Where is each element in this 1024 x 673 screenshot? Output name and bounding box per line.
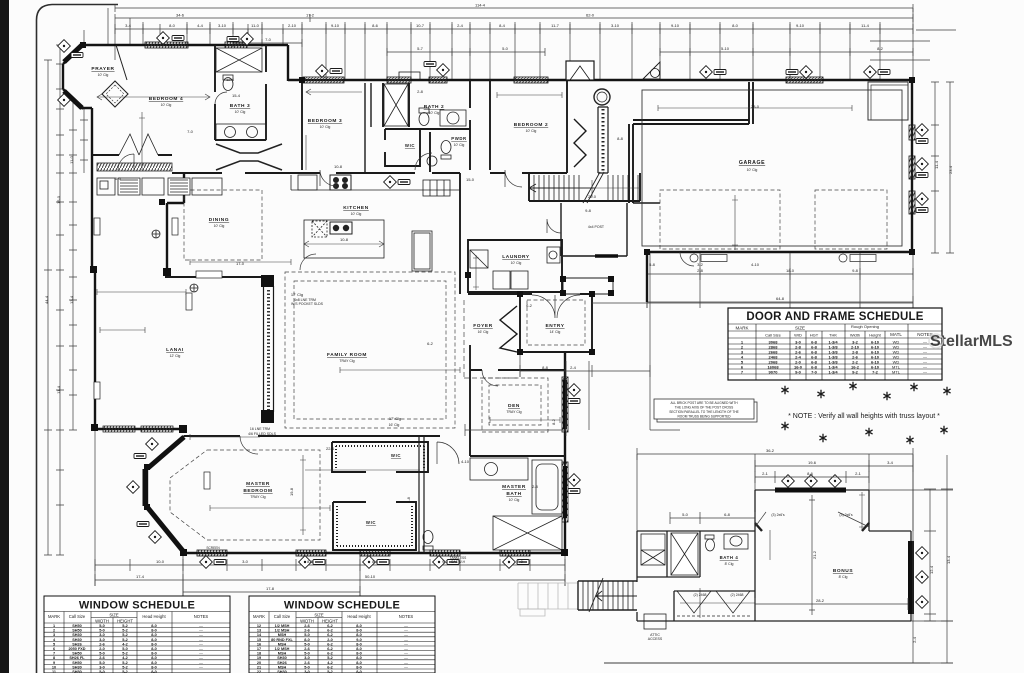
svg-text:8-0: 8-0	[151, 633, 157, 637]
svg-text:MARK: MARK	[253, 614, 265, 619]
svg-text:22-4: 22-4	[326, 446, 335, 451]
door arc: porch	[547, 219, 561, 233]
svg-text:8-8: 8-8	[307, 559, 314, 564]
svg-text:2-6: 2-6	[99, 656, 105, 660]
wall: master bay west window	[146, 468, 148, 507]
svg-text:SH30: SH30	[277, 656, 287, 660]
svg-text:10' Clg: 10' Clg	[98, 73, 109, 77]
svg-text:8-6: 8-6	[807, 471, 814, 476]
chimney flue dots	[602, 109, 605, 171]
svg-text:18: 18	[257, 652, 261, 656]
wall: bedroom3 west	[301, 80, 303, 170]
tray: family room nested	[285, 272, 455, 428]
bonus: sink bath4	[724, 534, 748, 549]
svg-text:2-4: 2-4	[457, 23, 464, 28]
svg-text:5-2: 5-2	[327, 656, 333, 660]
svg-text:9-8: 9-8	[585, 208, 592, 213]
svg-text:5-0: 5-0	[115, 176, 122, 181]
dim line: left vertical columns	[44, 60, 52, 555]
door arc: entry double doors	[532, 295, 580, 318]
svg-text:9-8: 9-8	[852, 268, 859, 273]
fixture: kitchen island	[304, 220, 384, 258]
symbols: east wall	[568, 384, 581, 397]
svg-text:MASTER: MASTER	[502, 484, 526, 490]
svg-text:2-0: 2-0	[327, 638, 333, 642]
door arc: family opening	[300, 254, 316, 270]
dim line: overall top 114-4	[115, 4, 913, 12]
svg-text:2-6: 2-6	[304, 624, 310, 628]
dim line: under garage	[647, 268, 913, 280]
svg-text:ACCESS: ACCESS	[648, 637, 663, 641]
svg-text:SH50: SH50	[72, 624, 82, 628]
svg-text:4-2: 4-2	[327, 661, 333, 665]
wall: stairs enclosure	[529, 173, 640, 201]
window: bay master W	[143, 469, 148, 506]
svg-text:8: 8	[53, 656, 55, 660]
svg-text:8-0: 8-0	[356, 652, 362, 656]
svg-text:5-2: 5-2	[122, 629, 128, 633]
svg-text:5-10: 5-10	[721, 46, 730, 51]
svg-text:9070: 9070	[769, 370, 779, 375]
svg-text:10' Clg: 10' Clg	[454, 143, 465, 147]
tray: dining	[184, 190, 262, 260]
bonus: south wall	[637, 620, 911, 622]
svg-text:9-2: 9-2	[852, 370, 859, 375]
svg-text:6-2: 6-2	[327, 633, 333, 637]
bonus: right wall diamonds	[916, 547, 929, 560]
svg-text:8-4: 8-4	[499, 23, 506, 28]
svg-text:—: —	[404, 638, 408, 642]
svg-text:16: 16	[257, 642, 261, 646]
window pill markers on west walls	[94, 218, 100, 235]
svg-text:MATL: MATL	[890, 332, 902, 337]
tray: master bedroom	[170, 450, 320, 540]
bonus: closet walls	[674, 591, 755, 621]
dim line: right garage verticals	[931, 82, 939, 253]
fixture: foyer niche shelves	[423, 180, 450, 196]
svg-text:4-10: 4-10	[751, 262, 760, 267]
svg-text:5-0: 5-0	[99, 624, 105, 628]
svg-text:8-0: 8-0	[732, 23, 739, 28]
svg-text:12: 12	[257, 624, 261, 628]
svg-text:WID: WID	[794, 333, 802, 338]
fixture: master vanity	[470, 458, 528, 480]
svg-text:DINING: DINING	[209, 217, 229, 223]
svg-text:5-2: 5-2	[122, 665, 128, 669]
svg-text:SH26 FL: SH26 FL	[69, 656, 85, 660]
window: garage top	[786, 77, 823, 83]
interior small dims	[115, 77, 853, 597]
wall: foyer west	[459, 250, 461, 294]
fixture: kitchen range burners	[330, 175, 351, 190]
svg-text:FAMILY ROOM: FAMILY ROOM	[327, 352, 367, 358]
svg-text:—: —	[199, 647, 203, 651]
door arc: garage service	[680, 252, 694, 266]
svg-text:BEDROOM 2: BEDROOM 2	[514, 122, 548, 128]
chimney fan	[594, 89, 610, 105]
wall: hall south of bedroom3	[302, 172, 460, 174]
svg-text:* NOTE : Verify all wall heigh: * NOTE : Verify all wall heights with tr…	[788, 413, 940, 420]
svg-text:WINDOW SCHEDULE: WINDOW SCHEDULE	[79, 600, 195, 612]
svg-text:SIZE: SIZE	[314, 613, 324, 618]
svg-text:Head Height: Head Height	[142, 614, 166, 619]
svg-text:8' Clg: 8' Clg	[839, 575, 848, 579]
svg-text:11-4: 11-4	[934, 160, 939, 168]
svg-text:3-0: 3-0	[99, 638, 105, 642]
bonus: toilet bath4	[706, 539, 715, 551]
svg-text:17-0: 17-0	[236, 261, 245, 266]
svg-text:7: 7	[53, 652, 55, 656]
bonus: bath4 walls	[637, 531, 700, 577]
prayer corner closet diamond	[102, 81, 128, 107]
svg-text:ENTRY: ENTRY	[545, 323, 564, 329]
svg-text:8-0: 8-0	[356, 661, 362, 665]
svg-text:9-2: 9-2	[442, 559, 449, 564]
svg-text:—: —	[199, 638, 203, 642]
ground line	[604, 662, 930, 664]
svg-text:8-0: 8-0	[356, 629, 362, 633]
svg-text:13: 13	[257, 629, 261, 633]
wall: master bay NW diagonal window	[147, 436, 184, 468]
svg-text:ROOM TRUSS BEING SUPPORTED: ROOM TRUSS BEING SUPPORTED	[677, 415, 731, 419]
bonus: closet dashed shelf	[677, 615, 752, 617]
svg-text:114-4: 114-4	[475, 3, 486, 8]
svg-text:9-0: 9-0	[795, 370, 802, 375]
svg-text:Head Height: Head Height	[347, 614, 371, 619]
svg-text:10' Clg: 10' Clg	[161, 103, 172, 107]
svg-text:ALL BRICK POST ARE TO BE ALIGN: ALL BRICK POST ARE TO BE ALIGNED WITH	[670, 401, 738, 405]
svg-text:10' Clg: 10' Clg	[351, 212, 362, 216]
svg-text:3-0: 3-0	[99, 633, 105, 637]
svg-text:WIC: WIC	[391, 453, 401, 458]
window: garage east 2	[909, 156, 915, 179]
svg-text:20: 20	[257, 661, 261, 665]
bonus: stairs light continuation	[518, 583, 578, 616]
window: top wall pwdr	[429, 77, 447, 83]
svg-text:6-2: 6-2	[327, 652, 333, 656]
posts: wall junction blocks	[90, 266, 97, 273]
door arc: bedroom4	[118, 154, 134, 170]
svg-text:—: —	[404, 665, 408, 669]
door arc: bedroom3	[320, 170, 336, 186]
svg-text:7-2: 7-2	[872, 370, 879, 375]
svg-text:2-4: 2-4	[570, 365, 577, 370]
svg-text:DOOR AND FRAME SCHEDULE: DOOR AND FRAME SCHEDULE	[746, 311, 923, 323]
window: south wall segments	[197, 550, 227, 556]
svg-text:Rough Opening: Rough Opening	[851, 324, 879, 329]
svg-text:—: —	[199, 642, 203, 646]
window: top wall bedroom4	[145, 42, 188, 48]
svg-text:3-0: 3-0	[304, 656, 310, 660]
svg-text:8-0: 8-0	[151, 638, 157, 642]
fixture: laundry sink	[470, 250, 488, 268]
dim line: top third row segments	[115, 28, 913, 30]
bonus: attic access	[644, 614, 666, 629]
svg-text:4/6 FILLED SDLS: 4/6 FILLED SDLS	[248, 432, 276, 436]
svg-text:11-4: 11-4	[861, 23, 869, 28]
svg-text:5: 5	[53, 642, 55, 646]
svg-text:(3) 2x6's: (3) 2x6's	[771, 513, 785, 517]
svg-text:8-0: 8-0	[356, 665, 362, 669]
svg-text:THK: THK	[829, 333, 837, 338]
french doors bedroom4	[119, 134, 158, 155]
svg-text:—: —	[404, 661, 408, 665]
svg-text:13-4: 13-4	[69, 295, 74, 304]
svg-text:2-8: 2-8	[532, 484, 539, 489]
svg-text:WIC: WIC	[366, 520, 376, 525]
svg-text:36-2: 36-2	[766, 448, 775, 453]
svg-text:—: —	[199, 629, 203, 633]
wall: garage west double	[629, 82, 753, 203]
door arc: den	[482, 370, 498, 386]
svg-text:—: —	[199, 633, 203, 637]
bonus: corner braces	[755, 523, 869, 531]
svg-text:1-3/4: 1-3/4	[828, 370, 838, 375]
bonus: AC closet	[641, 534, 665, 565]
svg-text:5-8: 5-8	[406, 496, 411, 503]
svg-text:6: 6	[53, 647, 55, 651]
svg-text:9-10: 9-10	[796, 23, 805, 28]
svg-text:6-8: 6-8	[724, 512, 731, 517]
fixture: laundry washer dryer	[493, 271, 510, 289]
svg-text:8-0: 8-0	[517, 559, 524, 564]
svg-text:MSH: MSH	[278, 633, 287, 637]
svg-text:15-0: 15-0	[56, 195, 61, 204]
svg-text:WINDOW SCHEDULE: WINDOW SCHEDULE	[284, 600, 400, 612]
svg-text:3-4: 3-4	[125, 23, 132, 28]
svg-text:2-6: 2-6	[304, 647, 310, 651]
svg-text:15-4: 15-4	[232, 93, 241, 98]
svg-text:8-0: 8-0	[304, 638, 310, 642]
chimney: flue column	[598, 107, 608, 173]
svg-text:—: —	[199, 652, 203, 656]
window: prayer bay SW	[64, 91, 82, 108]
svg-text:21-2: 21-2	[812, 550, 817, 559]
svg-text:16' Clg: 16' Clg	[478, 330, 489, 334]
wall: top exterior section B (bedrooms/garage)	[288, 79, 912, 81]
wall: step between top sections	[287, 45, 289, 81]
buffet dotted strip	[97, 163, 172, 171]
wall: lanai north step	[165, 276, 262, 278]
svg-text:8-0: 8-0	[151, 652, 157, 656]
window: top wall bedroom4 east	[225, 42, 247, 48]
fixture: bath2 toilet	[419, 113, 429, 126]
sheet frame border	[37, 5, 119, 673]
fixture: pantry cabinet	[412, 231, 432, 271]
svg-text:HEIGHT: HEIGHT	[322, 619, 338, 624]
dim line: bottom south wall rows	[95, 559, 565, 571]
svg-text:19: 19	[257, 656, 261, 660]
svg-text:12-4: 12-4	[929, 565, 934, 574]
wall: master/bath divider	[419, 436, 424, 553]
svg-text:BATH: BATH	[506, 491, 521, 497]
svg-text:8-0: 8-0	[151, 629, 157, 633]
symbols: top wall window markers	[157, 32, 170, 45]
tray: garage bays	[660, 190, 780, 249]
svg-text:11-4: 11-4	[56, 385, 61, 393]
hall bowtie chamfer walls	[216, 144, 282, 153]
svg-text:8-0: 8-0	[151, 665, 157, 669]
svg-text:8-0: 8-0	[151, 656, 157, 660]
svg-text:3-0: 3-0	[242, 559, 249, 564]
buffet cabinets	[97, 178, 115, 195]
svg-text:5-0: 5-0	[304, 652, 310, 656]
svg-text:21: 21	[257, 665, 261, 669]
svg-text:10-0: 10-0	[156, 559, 165, 564]
svg-text:Width: Width	[850, 333, 860, 338]
svg-text:10' Clg: 10' Clg	[747, 168, 758, 172]
door arc: bath3	[215, 92, 227, 104]
svg-text:28-0: 28-0	[751, 104, 760, 109]
svg-text:10' Clg: 10' Clg	[320, 125, 331, 129]
wall: bedroom4 south west seg	[92, 154, 172, 156]
wall: master bath north	[470, 436, 565, 456]
svg-text:10-8: 10-8	[340, 237, 349, 242]
svg-text:MSH: MSH	[278, 642, 287, 646]
svg-text:(2) 2468: (2) 2468	[730, 593, 743, 597]
svg-text:6-2: 6-2	[427, 341, 434, 346]
svg-text:KITCHEN: KITCHEN	[343, 205, 369, 211]
svg-text:11-0: 11-0	[69, 155, 74, 163]
fixture: master tub	[532, 460, 562, 514]
svg-text:SH30: SH30	[72, 633, 82, 637]
svg-text:SIZE: SIZE	[109, 613, 119, 618]
svg-text:10' Clg: 10' Clg	[214, 224, 225, 228]
svg-text:LAUNDRY: LAUNDRY	[502, 254, 530, 260]
svg-text:—: —	[404, 642, 408, 646]
vent triangle	[643, 62, 660, 79]
window: bay master NW	[148, 437, 184, 468]
svg-text:TRAY Clg: TRAY Clg	[506, 410, 521, 414]
svg-text:2-6: 2-6	[304, 629, 310, 633]
fixture: bath3 shower	[216, 48, 262, 72]
wall: den west	[469, 345, 471, 436]
svg-text:17: 17	[257, 647, 261, 651]
wall: lanai west	[94, 270, 96, 430]
svg-text:11-0: 11-0	[251, 23, 259, 28]
wall: hall south	[172, 172, 302, 174]
svg-text:THE LONG AXIS OF THE POST CROS: THE LONG AXIS OF THE POST CROSS	[675, 406, 734, 410]
svg-text:9-0: 9-0	[356, 638, 362, 642]
svg-text:SH30: SH30	[72, 665, 82, 669]
svg-text:62-0: 62-0	[586, 13, 595, 18]
svg-text:MSH: MSH	[278, 665, 287, 669]
fixture: master shower	[493, 516, 562, 550]
svg-text:5-2: 5-2	[122, 624, 128, 628]
bonus: dormer diamonds	[782, 475, 795, 488]
svg-text:FOYER: FOYER	[473, 323, 493, 329]
svg-text:4-4: 4-4	[197, 23, 204, 28]
svg-text:5-0: 5-0	[122, 647, 128, 651]
svg-text:15: 15	[257, 638, 261, 642]
svg-text:1/2 MSH: 1/2 MSH	[275, 629, 290, 633]
svg-text:44-4: 44-4	[44, 295, 49, 304]
svg-text:12' Clg: 12' Clg	[170, 354, 181, 358]
svg-text:10' Clg: 10' Clg	[526, 129, 537, 133]
stars scatter	[781, 386, 788, 394]
svg-text:8-0: 8-0	[356, 656, 362, 660]
svg-text:—: —	[199, 661, 203, 665]
stoop	[563, 278, 613, 294]
svg-text:MTL: MTL	[892, 370, 901, 375]
wall: master bay SW diagonal window	[147, 507, 184, 552]
chimney: media wall zigzag	[574, 119, 586, 167]
svg-text:4-2: 4-2	[122, 656, 128, 660]
wall: wic2 box	[333, 502, 416, 550]
wall: east exterior below entry	[564, 352, 566, 553]
prayer east slant wall	[116, 45, 127, 80]
svg-text:SH50: SH50	[72, 661, 82, 665]
wall: dining north jog	[167, 174, 184, 203]
svg-text:PWDR: PWDR	[451, 136, 467, 141]
svg-text:—: —	[404, 652, 408, 656]
svg-text:9-10: 9-10	[671, 23, 680, 28]
svg-text:8-0: 8-0	[356, 647, 362, 651]
step up pill	[196, 271, 222, 278]
garage door labels on south wall	[690, 254, 876, 262]
svg-text:17-4: 17-4	[136, 574, 145, 579]
wic hanging rails dotted	[336, 446, 424, 468]
svg-text:5-0: 5-0	[502, 46, 509, 51]
svg-text:64-8: 64-8	[776, 296, 785, 301]
wall: prayer bay NW diagonal	[63, 45, 83, 64]
svg-text:5-0: 5-0	[99, 661, 105, 665]
svg-text:HGT: HGT	[810, 333, 819, 338]
wall: foyer niche zigzag	[500, 306, 517, 352]
svg-text:7-0: 7-0	[187, 129, 194, 134]
svg-text:10: 10	[52, 665, 56, 669]
svg-text:GAS W-H: GAS W-H	[451, 560, 466, 564]
svg-text:1/2 MSH: 1/2 MSH	[275, 624, 290, 628]
wall: bath3 west	[214, 45, 216, 140]
svg-text:—: —	[199, 656, 203, 660]
fixture: island sink	[330, 222, 352, 234]
svg-text:80 RND FXL: 80 RND FXL	[271, 638, 293, 642]
wall: bedroom2 east	[566, 80, 568, 173]
bonus: inner dim	[755, 598, 908, 610]
svg-text:8-6: 8-6	[372, 23, 379, 28]
wall: bath3 east	[265, 45, 267, 140]
svg-text:22-0: 22-0	[588, 194, 597, 199]
svg-text:3-4: 3-4	[887, 460, 894, 465]
svg-text:8-0: 8-0	[356, 624, 362, 628]
svg-text:BEDROOM 3: BEDROOM 3	[308, 118, 342, 124]
svg-text:17-2: 17-2	[306, 13, 315, 18]
svg-text:13-4: 13-4	[946, 555, 951, 564]
svg-text:8-8: 8-8	[372, 559, 379, 564]
svg-text:NOTES: NOTES	[399, 614, 414, 619]
window: east den/bath wall	[562, 377, 568, 432]
svg-text:5-0: 5-0	[99, 629, 105, 633]
fan: lanai step	[190, 284, 198, 292]
dim extension: south wall down	[95, 430, 565, 598]
svg-text:16' Clg: 16' Clg	[389, 423, 400, 427]
wall: bath2 east	[469, 80, 471, 170]
window: top wall bath2	[387, 77, 411, 83]
dim line: top second row	[115, 14, 913, 22]
svg-text:SIZE: SIZE	[795, 326, 805, 331]
fixture: bath2 sink	[440, 110, 466, 126]
svg-text:9: 9	[53, 661, 55, 665]
svg-text:Call Size: Call Size	[69, 614, 86, 619]
dim ticks: top third row	[115, 24, 913, 34]
window: garage east 3	[909, 191, 915, 214]
svg-text:Height: Height	[869, 333, 881, 338]
svg-text:2050 FXD: 2050 FXD	[68, 647, 85, 651]
svg-text:2-0: 2-0	[99, 647, 105, 651]
svg-text:W/S POCKET SLDS: W/S POCKET SLDS	[291, 302, 324, 306]
svg-text:MARK: MARK	[735, 326, 748, 331]
